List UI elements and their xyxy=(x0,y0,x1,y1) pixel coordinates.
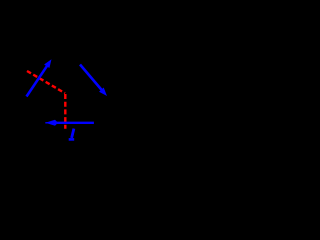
time axis (blue, arrow pointing left) xyxy=(45,120,94,126)
vector arrow V2 (blue, pointing down-right) xyxy=(80,65,107,97)
red dashed guide line (vertical segment) xyxy=(64,94,66,129)
axis label t (drawn italic glyph) xyxy=(69,129,75,140)
red dashed guide line (diagonal segment) xyxy=(27,71,65,93)
vector arrow V1 (blue, pointing up-right) xyxy=(27,59,52,96)
